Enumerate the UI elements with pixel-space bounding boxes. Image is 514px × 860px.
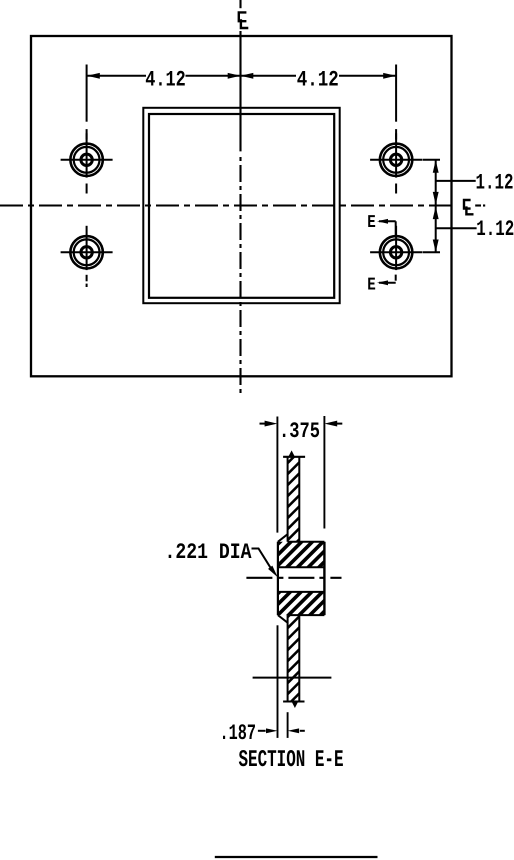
svg-text:4.12: 4.12 [297,67,339,92]
svg-text:.187: .187 [220,721,257,746]
svg-text:1.12: 1.12 [476,170,514,195]
svg-text:E: E [367,276,376,296]
svg-text:4.12: 4.12 [145,67,186,92]
svg-text:.375: .375 [279,419,320,444]
svg-text:SECTION E-E: SECTION E-E [239,747,344,774]
svg-text:E: E [367,213,376,233]
svg-text:1.12: 1.12 [476,217,514,242]
svg-text:.221 DIA: .221 DIA [165,540,253,565]
